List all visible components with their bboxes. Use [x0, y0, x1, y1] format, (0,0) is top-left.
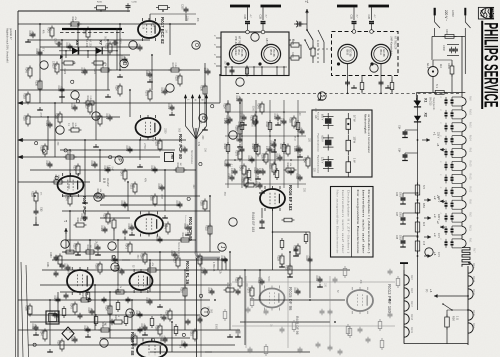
svg-text:R154: R154 [105, 305, 108, 311]
svg-text:2,2M: 2,2M [287, 265, 289, 270]
svg-text:X2: X2 [424, 113, 428, 117]
svg-text:+4: +4 [433, 252, 437, 256]
svg-text:C151: C151 [35, 49, 38, 55]
svg-text:+4: +4 [429, 289, 433, 293]
svg-text:C149: C149 [200, 268, 203, 274]
svg-text:der Widerstände und Kondensato: der Widerstände und Kondensatoren [367, 114, 370, 154]
svg-text:1M: 1M [97, 115, 99, 118]
svg-text:R120: R120 [81, 293, 84, 299]
svg-text:R154: R154 [115, 85, 118, 91]
svg-text:2,2M: 2,2M [108, 114, 110, 119]
svg-text:1M: 1M [226, 144, 228, 147]
svg-text:R162: R162 [244, 170, 247, 176]
svg-text:2,2M: 2,2M [27, 305, 29, 310]
svg-text:Rö6: Rö6 [469, 96, 472, 101]
svg-text:C163: C163 [145, 298, 148, 304]
svg-text:600 V: 600 V [321, 114, 324, 121]
svg-text:R104: R104 [291, 52, 294, 58]
svg-text:C186: C186 [235, 96, 238, 102]
svg-text:R114: R114 [54, 175, 57, 181]
svg-text:R120: R120 [101, 63, 104, 69]
svg-text:R121: R121 [114, 315, 117, 321]
svg-text:2,2M: 2,2M [83, 214, 85, 219]
svg-text:C188: C188 [150, 166, 153, 172]
svg-text:2,2M: 2,2M [160, 184, 162, 189]
svg-text:5000: 5000 [399, 192, 401, 198]
svg-text:1M: 1M [147, 90, 149, 93]
svg-text:C 8: C 8 [422, 241, 426, 246]
svg-text:Druckplatte II ( ZF-Stufen: Druckplatte II ( ZF-Stufen ) [346, 190, 350, 254]
svg-text:600 V: 600 V [321, 136, 324, 143]
svg-text:1%: 1% [40, 192, 42, 195]
svg-text:1/2 W: 1/2 W [353, 137, 356, 144]
svg-text:Rö20: Rö20 [472, 310, 475, 317]
svg-text:1M: 1M [179, 163, 181, 166]
svg-text:X7: X7 [99, 40, 104, 46]
svg-text:R134: R134 [223, 103, 226, 109]
svg-text:R145: R145 [237, 122, 240, 128]
svg-text:C187: C187 [45, 161, 48, 167]
svg-text:Rö2: Rö2 [469, 212, 472, 217]
svg-text:C124: C124 [70, 104, 73, 110]
svg-text:GA 204: GA 204 [85, 39, 88, 47]
svg-text:2,5M: 2,5M [143, 143, 145, 148]
svg-text:5000: 5000 [251, 106, 253, 112]
svg-text:Rö5: Rö5 [469, 199, 472, 204]
svg-text:R114: R114 [265, 122, 268, 128]
svg-text:1M: 1M [202, 85, 204, 88]
svg-text:C116: C116 [293, 146, 296, 152]
svg-text:2200: 2200 [163, 128, 165, 134]
svg-text:+1: +1 [305, 0, 309, 4]
svg-text:5600: 5600 [25, 115, 27, 121]
svg-text:R107: R107 [73, 165, 76, 171]
svg-text:Rö9': Rö9' [410, 288, 413, 294]
svg-text:R119: R119 [235, 277, 238, 283]
svg-text:C160: C160 [253, 168, 256, 174]
svg-text:C145: C145 [265, 146, 268, 152]
svg-text:M: M [112, 265, 118, 269]
svg-text:C181: C181 [45, 121, 48, 127]
svg-text:Rö3: Rö3 [469, 148, 472, 153]
svg-text:R105: R105 [291, 39, 294, 45]
svg-text:R180: R180 [200, 200, 203, 206]
svg-text:Rö4: Rö4 [472, 323, 475, 328]
svg-text:R108: R108 [103, 213, 106, 219]
svg-text:C118: C118 [65, 43, 68, 49]
svg-text:+1: +1 [433, 132, 437, 136]
svg-text:R222: R222 [63, 69, 65, 75]
svg-text:1M: 1M [25, 93, 27, 96]
svg-text:1M: 1M [165, 29, 167, 32]
svg-text:H: H [194, 99, 198, 101]
svg-text:C116: C116 [90, 161, 93, 167]
svg-text:R161: R161 [190, 330, 193, 336]
svg-text:R114: R114 [108, 218, 111, 224]
svg-text:5600: 5600 [259, 103, 261, 109]
svg-text:C114: C114 [183, 224, 186, 230]
svg-text:C192: C192 [230, 168, 233, 174]
svg-text:C64: C64 [398, 148, 401, 153]
svg-text:R146: R146 [257, 103, 260, 109]
svg-text:+3: +3 [433, 233, 437, 237]
svg-text:1 W: 1 W [353, 158, 356, 163]
svg-text:C230: C230 [132, 2, 138, 4]
svg-text:R177: R177 [163, 223, 166, 229]
svg-text:R164: R164 [140, 253, 143, 259]
svg-text:2,2M: 2,2M [68, 43, 70, 48]
svg-text:5600: 5600 [104, 36, 106, 42]
svg-text:1M: 1M [120, 268, 122, 271]
svg-text:Rö17 ECC 82: Rö17 ECC 82 [160, 17, 165, 44]
svg-text:1 Ω: 1 Ω [456, 316, 459, 320]
svg-text:5600: 5600 [251, 122, 253, 128]
svg-text:R169: R169 [55, 113, 58, 119]
svg-text:1M: 1M [282, 121, 284, 124]
svg-text:C151: C151 [315, 276, 318, 282]
svg-text:C156: C156 [258, 168, 261, 174]
svg-text:X1: X1 [424, 98, 428, 102]
svg-text:25 V: 25 V [293, 136, 295, 141]
svg-text:X: X [69, 331, 73, 333]
svg-text:C169: C169 [273, 114, 276, 120]
svg-text:R169: R169 [71, 17, 74, 23]
svg-text:PC 88: PC 88 [272, 50, 275, 58]
svg-text:Papierkondensator: Papierkondensator [317, 134, 320, 153]
svg-text:C190: C190 [235, 136, 238, 142]
svg-text:C64: C64 [398, 125, 401, 130]
svg-text:C186: C186 [135, 311, 138, 317]
svg-text:C198: C198 [257, 278, 260, 284]
svg-text:C112: C112 [293, 288, 296, 294]
svg-text:C115: C115 [93, 244, 96, 250]
svg-text:R127: R127 [173, 257, 176, 263]
svg-text:C110: C110 [220, 256, 223, 262]
svg-text:R179: R179 [145, 90, 148, 96]
svg-text:C205: C205 [181, 4, 183, 10]
svg-text:C150: C150 [223, 161, 226, 167]
svg-text:R166: R166 [25, 305, 28, 311]
svg-text:5600: 5600 [267, 276, 269, 282]
svg-text:PHILIPS: PHILIPS [492, 8, 496, 18]
svg-text:C123: C123 [160, 88, 163, 94]
svg-text:C158: C158 [223, 118, 226, 124]
svg-text:Rö24: Rö24 [472, 276, 475, 283]
svg-text:R144: R144 [293, 122, 296, 128]
svg-text:C196: C196 [31, 324, 34, 330]
svg-text:5600: 5600 [254, 118, 256, 124]
svg-text:5600: 5600 [268, 122, 270, 128]
svg-text:C208: C208 [54, 38, 56, 44]
svg-text:Rö16 EF 183: Rö16 EF 183 [251, 212, 255, 232]
svg-text:2,2M: 2,2M [31, 31, 33, 36]
svg-text:5600: 5600 [105, 213, 107, 219]
svg-text:25 V: 25 V [151, 137, 153, 142]
svg-text:R231: R231 [97, 2, 103, 4]
svg-text:C172: C172 [180, 146, 183, 152]
svg-text:OA 202: OA 202 [106, 178, 109, 187]
svg-text:C173: C173 [175, 201, 178, 207]
svg-text:Rö21: Rö21 [472, 289, 475, 296]
svg-text:5600: 5600 [233, 168, 235, 174]
svg-text:C28: C28 [395, 235, 397, 240]
svg-text:R195: R195 [261, 153, 264, 159]
svg-text:R162: R162 [251, 144, 254, 150]
svg-text:C240: C240 [49, 252, 51, 258]
svg-text:Rö10: Rö10 [469, 122, 472, 129]
svg-text:1M: 1M [89, 245, 91, 248]
svg-text:0,47: 0,47 [110, 166, 112, 171]
svg-text:EC 86: EC 86 [349, 50, 352, 58]
svg-text:R125: R125 [96, 189, 99, 195]
svg-text:R111: R111 [226, 283, 229, 289]
svg-text:5000: 5000 [399, 235, 401, 241]
svg-text:C191: C191 [135, 44, 138, 50]
svg-text:Rö18 PL 36: Rö18 PL 36 [185, 261, 190, 285]
svg-text:5600: 5600 [202, 200, 204, 206]
svg-text:R115: R115 [246, 178, 249, 184]
svg-text:R139: R139 [277, 255, 280, 261]
svg-text:R162: R162 [180, 287, 183, 293]
svg-text:R130: R130 [175, 75, 178, 81]
svg-text:R132: R132 [205, 225, 208, 231]
svg-text:AB 7610: AB 7610 [265, 38, 269, 49]
svg-text:Rö7: Rö7 [472, 263, 475, 268]
svg-text:R111: R111 [279, 144, 282, 150]
svg-text:2,2M: 2,2M [103, 226, 105, 231]
svg-text:C182: C182 [53, 296, 56, 302]
svg-text:110: 110 [439, 64, 442, 68]
svg-text:H5: H5 [170, 155, 174, 159]
svg-text:R108: R108 [35, 80, 38, 86]
svg-text:T: T [202, 310, 208, 313]
svg-text:AT 7652 ZF: AT 7652 ZF [394, 36, 398, 50]
svg-text:R201: R201 [445, 29, 448, 35]
svg-text:R50: R50 [452, 316, 456, 321]
svg-text:R147: R147 [181, 233, 184, 239]
svg-text:C161: C161 [279, 118, 282, 124]
svg-text:Rö19: Rö19 [410, 327, 413, 334]
svg-text:C162: C162 [83, 326, 86, 332]
svg-text:2,2M: 2,2M [289, 168, 291, 173]
svg-text:0,47: 0,47 [107, 165, 109, 170]
svg-text:C169: C169 [100, 226, 103, 232]
svg-text:Rö13: Rö13 [469, 173, 472, 180]
svg-text:R162: R162 [223, 144, 226, 150]
svg-text:Rö16: Rö16 [469, 109, 472, 116]
svg-text:D: D [121, 62, 127, 66]
svg-text:C182: C182 [80, 214, 83, 220]
svg-text:R195: R195 [57, 340, 60, 346]
svg-text:5600: 5600 [143, 324, 145, 330]
svg-text:R151: R151 [130, 183, 133, 189]
svg-text:C178: C178 [255, 182, 258, 188]
svg-text:C113: C113 [120, 201, 123, 207]
svg-text:R116: R116 [116, 285, 119, 291]
svg-text:125 V: 125 V [321, 157, 324, 164]
svg-text:R170: R170 [247, 287, 250, 293]
svg-text:5600: 5600 [83, 68, 85, 74]
svg-text:R175: R175 [71, 123, 74, 129]
svg-text:R228: R228 [31, 191, 34, 197]
svg-text:R104: R104 [148, 263, 151, 269]
svg-text:A 802: A 802 [451, 10, 455, 17]
svg-text:R129: R129 [155, 140, 158, 146]
svg-text:1/7 W: 1/7 W [353, 115, 356, 122]
svg-text:C28: C28 [367, 15, 370, 20]
svg-text:R144: R144 [40, 330, 43, 336]
svg-text:C63: C63 [40, 207, 43, 212]
svg-text:betreiben sich auf der: betreiben sich auf der [361, 190, 365, 254]
svg-text:C241: C241 [46, 262, 48, 268]
svg-text:PHILIPS SERVICE: PHILIPS SERVICE [479, 23, 500, 108]
svg-text:Druckplatte I ( Abbremstufe: Druckplatte I ( Abbremstufen ) [367, 190, 371, 254]
svg-text:R146: R146 [25, 67, 28, 73]
svg-text:S 1: S 1 [435, 84, 439, 88]
svg-text:1M: 1M [178, 345, 180, 348]
svg-text:R141: R141 [125, 243, 128, 249]
svg-text:C147: C147 [239, 114, 242, 120]
svg-text:R140: R140 [120, 170, 123, 176]
svg-text:40 V: 40 V [437, 252, 440, 257]
svg-text:R145: R145 [239, 165, 242, 171]
svg-text:EC 88: EC 88 [382, 50, 385, 58]
svg-text:R132: R132 [285, 265, 288, 271]
svg-text:C152: C152 [157, 184, 160, 190]
svg-text:Bildrohrkabel: Bildrohrkabel [190, 150, 193, 164]
svg-text:1 BW 23: 1 BW 23 [212, 262, 215, 272]
svg-text:R192: R192 [150, 195, 153, 201]
svg-text:R171: R171 [105, 43, 108, 49]
svg-text:R114: R114 [176, 163, 179, 169]
svg-text:1M: 1M [271, 163, 273, 166]
svg-text:PC 86: PC 86 [240, 50, 243, 58]
svg-text:B5 B: B5 B [269, 50, 272, 56]
svg-text:betreiben sich auf der: betreiben sich auf der [341, 190, 345, 254]
svg-text:R198: R198 [165, 310, 168, 316]
svg-text:C188: C188 [103, 166, 106, 172]
svg-text:O: O [193, 43, 199, 47]
svg-text:GL1: GL1 [426, 63, 430, 69]
svg-text:C26: C26 [395, 192, 397, 197]
svg-text:R163: R163 [23, 93, 26, 99]
svg-text:2,2M: 2,2M [174, 63, 176, 68]
svg-text:0,47: 0,47 [152, 22, 154, 27]
svg-text:UHF-Kanalwähler: UHF-Kanalwähler [390, 36, 393, 56]
svg-text:Bildrohrkontakte: Bildrohrkontakte [177, 242, 180, 259]
svg-text:R168: R168 [155, 325, 158, 331]
svg-text:R223: R223 [93, 69, 95, 75]
svg-text:Rö13 POF 180: Rö13 POF 180 [387, 284, 392, 314]
svg-text:C194: C194 [170, 251, 173, 257]
svg-text:Rö18: Rö18 [410, 314, 413, 321]
svg-text:C27: C27 [395, 212, 397, 217]
svg-text:R171: R171 [171, 63, 174, 69]
svg-text:R137: R137 [195, 255, 198, 261]
svg-text:R143: R143 [272, 170, 275, 176]
svg-text:1M: 1M [203, 148, 205, 151]
svg-text:Rö14: Rö14 [469, 135, 472, 142]
svg-text:0,47: 0,47 [160, 194, 162, 199]
svg-text:Für ausgewählte Bauelemente: Für ausgewählte Bauelemente [356, 190, 360, 255]
svg-text:Papierkondensator: Papierkondensator [317, 155, 320, 174]
svg-text:R 202: R 202 [316, 40, 320, 47]
svg-text:5000: 5000 [399, 212, 401, 218]
svg-text:1M: 1M [73, 336, 75, 339]
svg-text:(C): (C) [425, 289, 428, 293]
svg-text:5600: 5600 [296, 122, 298, 128]
svg-text:5600: 5600 [130, 224, 132, 230]
svg-text:C28: C28 [350, 15, 353, 20]
svg-text:Rö17: Rö17 [410, 301, 413, 308]
svg-text:Niederohmigkeit: Niederohmigkeit [364, 114, 368, 134]
svg-text:1M: 1M [93, 161, 95, 164]
svg-text:R111: R111 [86, 245, 89, 251]
svg-text:R165: R165 [289, 117, 292, 123]
svg-text:C151: C151 [125, 146, 128, 152]
svg-text:R164: R164 [76, 218, 79, 224]
svg-text:B: B [201, 99, 205, 101]
svg-text:1M: 1M [72, 303, 74, 306]
svg-text:5000: 5000 [67, 184, 69, 190]
svg-text:C202: C202 [442, 45, 445, 51]
svg-text:VHF-Kanalwähler: VHF-Kanalwähler [234, 36, 237, 56]
svg-text:2,2M: 2,2M [89, 96, 91, 101]
svg-text:R174: R174 [65, 195, 68, 201]
svg-text:1M: 1M [197, 255, 199, 258]
svg-text:B6 B: B6 B [345, 50, 348, 56]
svg-text:X 9: X 9 [102, 178, 106, 183]
svg-text:C161: C161 [227, 174, 230, 180]
svg-text:Z: Z [95, 195, 101, 198]
svg-text:+3: +3 [64, 219, 68, 223]
svg-text:5: 5 [319, 95, 325, 98]
svg-text:C202: C202 [119, 38, 121, 44]
svg-text:AT 7650: AT 7650 [238, 36, 242, 47]
svg-text:R174: R174 [95, 115, 98, 121]
svg-text:C141: C141 [167, 104, 170, 110]
svg-text:C117: C117 [305, 256, 308, 262]
svg-text:2,2M: 2,2M [132, 183, 134, 188]
svg-text:S 5: S 5 [422, 185, 426, 189]
svg-text:C130: C130 [203, 68, 206, 74]
svg-text:5000: 5000 [215, 324, 217, 330]
svg-text:Rö15 DF 96: Rö15 DF 96 [288, 287, 293, 311]
svg-text:25 V: 25 V [42, 46, 44, 51]
svg-text:Rö1': Rö1' [410, 275, 413, 281]
svg-text:R142: R142 [47, 27, 50, 33]
svg-text:88: 88 [56, 314, 60, 318]
svg-text:2,2M: 2,2M [296, 146, 298, 151]
svg-text:2,5M: 2,5M [39, 113, 41, 118]
svg-text:R145: R145 [70, 303, 73, 309]
svg-text:C131: C131 [247, 156, 250, 162]
svg-text:C149: C149 [80, 68, 83, 74]
svg-text:+3: +3 [433, 214, 437, 218]
svg-text:C119: C119 [105, 114, 108, 120]
svg-text:R116: R116 [23, 115, 26, 121]
svg-text:BA 100: BA 100 [88, 39, 91, 47]
svg-text:Rö15 DF 96: Rö15 DF 96 [295, 316, 299, 335]
svg-text:1M: 1M [145, 72, 147, 75]
svg-text:C126: C126 [275, 154, 278, 160]
svg-text:Hauptgleichr.: Hauptgleichr. [432, 97, 435, 111]
svg-text:R200: R200 [447, 63, 450, 69]
svg-text:OA 210: OA 210 [429, 97, 432, 106]
svg-text:C158: C158 [28, 31, 31, 37]
svg-text:B6 A: B6 A [379, 50, 382, 56]
svg-text:1M: 1M [123, 56, 125, 59]
